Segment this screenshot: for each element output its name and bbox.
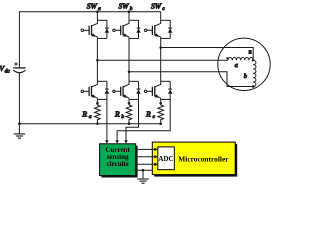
label winding b [244,73,248,80]
node shunt bottom dot leg a [96,122,99,125]
ADC box [158,147,175,170]
wire midpoint vertical leg a [96,38,98,81]
node winding a polarity dot [226,57,228,59]
wire lower emitter to shunt leg b [128,99,130,105]
wire rail to upper switch leg b [128,12,130,21]
wire sense tap ia [105,99,109,143]
label SWb [119,1,133,12]
wire rail to upper switch leg c [160,12,162,21]
node emitter shunt dot leg a [96,102,99,105]
wire sense output 3 to ADC [136,163,158,167]
wire sense tap ib [124,99,138,143]
wire phase a output line [97,59,228,61]
microcontroller box [152,142,235,175]
resistor Rb zigzag [126,105,132,124]
label Ra [81,110,91,121]
node winding b bottom dot [252,85,255,88]
svg-text:a: a [235,62,239,69]
svg-text:SW: SW [87,1,98,10]
capacitor Vdc top plate [13,67,25,69]
svg-text:R: R [145,110,151,119]
label Rb [114,110,124,121]
node emitter shunt dot leg c [159,102,162,105]
wire rail to upper switch leg a [96,12,98,21]
node junction dot bottom left [18,122,21,125]
ground symbol signal [137,170,148,183]
node phase a junction dot [96,59,99,62]
wire sense output 2 to ADC [136,155,158,159]
svg-text:c: c [162,6,165,12]
inductor winding a [228,58,253,61]
node emitter shunt dot leg b [128,102,131,105]
svg-text:SW: SW [151,1,162,10]
node common reference dot [142,169,145,172]
label Rc [145,110,155,121]
transistor lower IGBT with diode, leg a [81,81,109,99]
wire bottom DC bus rail [19,123,160,125]
svg-text:SW: SW [119,1,130,10]
transistor lower IGBT with diode, leg b [113,81,141,99]
node shunt bottom dot leg c [159,122,162,125]
transistor upper IGBT with diode, leg a (SWa top) [81,20,109,38]
svg-text:n: n [249,49,252,55]
node phase c junction dot [159,46,162,49]
svg-text:a: a [89,114,92,120]
transistor lower IGBT with diode, leg c [144,81,172,99]
wire lower emitter to shunt leg c [160,99,162,105]
capacitor Vdc plus sign [14,62,18,66]
node junction dot rail leg a [96,10,99,13]
wire left DC bus vertical lower [18,73,20,124]
wire sense tap ic [115,99,170,143]
label SWa [87,1,101,12]
svg-text:b: b [121,114,124,120]
current sensing circuits box shadow [102,146,138,178]
svg-text:b: b [244,73,248,80]
label SWc [151,1,165,12]
svg-text:R: R [114,110,120,119]
svg-text:ADC: ADC [158,155,173,163]
node shunt bottom dot leg b [128,122,131,125]
transistor upper IGBT with diode, leg c (SWc top) [144,20,172,38]
wire midpoint vertical leg b [128,38,130,81]
svg-text:c: c [153,114,156,120]
resistor Rc zigzag [158,105,164,124]
label neutral n [249,49,252,55]
wire sense output 1 to ADC [136,148,158,152]
svg-text:dc: dc [5,69,11,75]
inductor winding b [253,60,256,86]
node junction dot rail leg b [128,10,131,13]
transistor upper IGBT with diode, leg b (SWb top) [113,20,141,38]
svg-text:a: a [98,6,101,12]
wire phase c output line [161,48,254,61]
svg-text:Microcontroller: Microcontroller [178,154,229,163]
node phase b junction dot [128,71,131,74]
ground symbol left [14,124,25,138]
motor stator circle [218,38,270,90]
svg-text:R: R [81,110,87,119]
svg-text:b: b [130,6,133,12]
wire common reference line [136,169,153,171]
capacitor Vdc curved plate [13,70,25,73]
node neutral top dot [252,59,254,61]
wire left DC bus vertical upper [18,12,20,68]
wire phase b output line [129,72,253,87]
label Vdc [0,64,10,75]
svg-text:circuits: circuits [107,160,129,168]
current sensing circuits box [100,144,136,176]
microcontroller box shadow [154,144,237,177]
resistor Ra zigzag [95,105,101,124]
label winding a [235,62,239,69]
wire lower emitter to shunt leg a [96,99,98,105]
wire midpoint vertical leg c [160,38,162,81]
wire top DC bus rail [19,11,160,13]
